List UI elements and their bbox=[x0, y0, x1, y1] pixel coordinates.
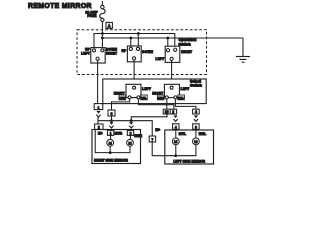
svg-text:6: 6 bbox=[195, 125, 197, 129]
inline connector arrows (MVR) bbox=[109, 122, 113, 125]
svg-text:DOWN: DOWN bbox=[142, 50, 153, 54]
inline connector arrows (MHL) bbox=[194, 115, 198, 118]
wire tab to motor M4 bbox=[195, 129, 197, 137]
inline connector arrows (MHR) bbox=[129, 122, 133, 125]
svg-text:MHR: MHR bbox=[158, 96, 164, 100]
svg-text:MVR: MVR bbox=[119, 96, 125, 100]
node junction M1 common bbox=[109, 151, 112, 154]
inline connector arrows (MVL) bbox=[174, 115, 178, 118]
right mirror tab MHR bbox=[127, 130, 133, 135]
wire S1 right contact to cell 2 bbox=[138, 99, 174, 109]
wire tab to motor M2 bbox=[129, 135, 131, 139]
node junction MVR drop bbox=[110, 119, 113, 122]
svg-text:4: 4 bbox=[175, 125, 177, 129]
svg-text:MHL: MHL bbox=[178, 96, 184, 100]
node junction fuse/line2 bbox=[101, 37, 104, 40]
wire M+ bus to left mirror bbox=[98, 121, 152, 136]
node junction line1/SW2R bbox=[137, 32, 140, 35]
node battery terminal circle bbox=[101, 5, 104, 8]
node junction MHR drop bbox=[130, 119, 133, 122]
svg-text:MHR: MHR bbox=[134, 134, 142, 138]
wire left mirror common bbox=[175, 145, 177, 156]
svg-text:LEFT: LEFT bbox=[81, 51, 90, 55]
right side mirror enclosure bbox=[92, 130, 141, 164]
svg-text:1: 1 bbox=[110, 132, 112, 136]
svg-text:MVL: MVL bbox=[179, 132, 186, 136]
svg-text:M: M bbox=[194, 139, 197, 144]
connector 6 box bbox=[108, 110, 115, 116]
wire SW1 connector chain : connector 1 box bbox=[94, 104, 103, 110]
svg-text:2: 2 bbox=[172, 110, 174, 114]
svg-text:Switch: Switch bbox=[190, 84, 203, 88]
svg-text:RIGHT SIDE MIRROR: RIGHT SIDE MIRROR bbox=[94, 158, 128, 162]
svg-text:4: 4 bbox=[195, 110, 197, 114]
switch SW1 (up-left / down-right) bbox=[91, 48, 105, 63]
connector 4 box bbox=[193, 109, 200, 114]
wire connector 6 to bus junction bbox=[111, 116, 113, 121]
svg-text:LEFT: LEFT bbox=[181, 87, 190, 91]
svg-text:M: M bbox=[128, 141, 131, 146]
right mirror tab MVR bbox=[107, 130, 113, 135]
fuse bottom square terminal bbox=[101, 18, 104, 21]
select sub-switch S2 bbox=[164, 84, 179, 97]
svg-text:10: 10 bbox=[165, 110, 169, 114]
ground symbol bbox=[236, 57, 250, 63]
select switch enclosure bbox=[103, 79, 206, 104]
wire bus line1 (upper) bbox=[94, 34, 175, 51]
svg-text:M+: M+ bbox=[155, 128, 160, 132]
svg-text:6: 6 bbox=[111, 112, 113, 116]
svg-text:1: 1 bbox=[98, 106, 100, 110]
wire SW1 output down to connector 1 bbox=[97, 60, 99, 103]
wire drop to SW3 left bbox=[167, 38, 169, 50]
wire M1 to common bbox=[109, 146, 111, 152]
terminal tag MVL (S1 right) bbox=[141, 95, 148, 100]
connector 7 box bbox=[149, 136, 155, 142]
motor M1 (right mirror vertical) bbox=[107, 139, 114, 146]
wire S2 right contact to connector 4 bbox=[175, 99, 196, 109]
terminal tag MHL (S2 right) bbox=[178, 95, 185, 100]
svg-text:REMOTE MIRROR: REMOTE MIRROR bbox=[28, 3, 92, 10]
wire bus line2 (lower, to ground) bbox=[102, 38, 243, 56]
operation switch dashed enclosure bbox=[77, 30, 207, 75]
node junction line2/SW3L bbox=[166, 37, 169, 40]
svg-text:LEFT SIDE MIRROR: LEFT SIDE MIRROR bbox=[173, 160, 205, 164]
svg-text:UP: UP bbox=[121, 49, 127, 53]
terminal tag MVR (S1 left) bbox=[119, 95, 126, 100]
svg-text:FUSE: FUSE bbox=[87, 14, 97, 18]
svg-text:LEFT: LEFT bbox=[142, 87, 151, 91]
wire drop to SW2 left bbox=[130, 38, 132, 50]
wire cell10 to MHR drop bbox=[131, 114, 167, 121]
select sub-switch S1 bbox=[126, 84, 141, 97]
node junction M3 common bbox=[174, 154, 177, 157]
svg-text:A: A bbox=[108, 23, 111, 28]
svg-text:MHL: MHL bbox=[199, 132, 207, 136]
wire S1 left contact to connector 6 bbox=[112, 99, 130, 110]
svg-text:7: 7 bbox=[151, 138, 153, 142]
connector A box bbox=[106, 22, 112, 28]
wire connector 7 to left mirror body bbox=[152, 142, 165, 156]
wire common across left mirror bbox=[165, 145, 196, 156]
svg-text:Switch: Switch bbox=[179, 43, 192, 47]
motor M3 (left mirror vertical) bbox=[172, 138, 179, 145]
terminal tag MHR (S2 left) bbox=[157, 95, 164, 100]
motor M4 (left mirror horizontal) bbox=[193, 138, 200, 145]
wire tab to motor M1 bbox=[110, 135, 112, 139]
connector B box (right mirror M+ entry) bbox=[95, 124, 103, 130]
wire SW2 output down to select switch bbox=[133, 60, 135, 86]
connector 10|2 double box bbox=[163, 109, 176, 114]
inline connector arrows below connector 1 bbox=[96, 111, 100, 114]
switch SW2 (up / down) bbox=[127, 46, 141, 62]
node junction fuse/line1 bbox=[101, 32, 104, 35]
svg-text:RIGHT: RIGHT bbox=[106, 51, 117, 55]
svg-text:2: 2 bbox=[130, 132, 132, 136]
svg-text:M: M bbox=[109, 141, 112, 146]
motor M2 (right mirror horizontal) bbox=[127, 139, 134, 146]
svg-text:MVL: MVL bbox=[141, 96, 147, 100]
wire connector 1 down to M+ bus bbox=[97, 117, 99, 130]
svg-text:Select: Select bbox=[190, 79, 202, 83]
svg-text:M+: M+ bbox=[98, 131, 103, 135]
svg-text:RIGHT: RIGHT bbox=[181, 50, 192, 54]
node junction line2/SW2L bbox=[129, 37, 132, 40]
wire S2 left contact down to cell 10 bbox=[166, 99, 168, 109]
fuse F (20 AMP) squiggle bbox=[100, 9, 105, 19]
switch SW3 (left / right) bbox=[165, 46, 180, 62]
wire SW3 output down to select switch bbox=[171, 61, 173, 87]
wire fuse to bus bbox=[101, 22, 103, 50]
wire tab to motor M3 bbox=[175, 129, 177, 137]
left mirror tab MHL bbox=[193, 124, 199, 130]
left mirror tab MVL bbox=[173, 124, 179, 130]
wire right mirror common return bbox=[95, 130, 130, 153]
left side mirror enclosure bbox=[165, 130, 214, 164]
wire battery feed top bbox=[101, 1, 103, 6]
svg-text:LEFT: LEFT bbox=[156, 57, 165, 61]
svg-text:M: M bbox=[174, 139, 177, 144]
wire drop to SW2 right bbox=[137, 34, 139, 51]
svg-text:MVR: MVR bbox=[115, 132, 123, 136]
